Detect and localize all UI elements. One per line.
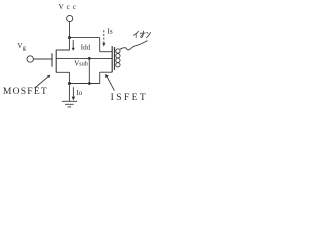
junction Vsub bottom	[88, 82, 91, 85]
transistor ISFET channel bar	[111, 46, 113, 72]
ion circle 3	[116, 58, 120, 62]
junction Vsub top	[88, 57, 91, 60]
svg-text:Vg: Vg	[17, 42, 26, 52]
transistor MOSFET channel bar	[55, 50, 57, 73]
svg-text:Is: Is	[107, 26, 112, 35]
wire ISFET source down	[99, 72, 101, 83]
wire Vsub drop	[88, 58, 90, 83]
wire to ground	[68, 84, 70, 102]
wire top rail	[70, 37, 100, 39]
wire bottom rail	[69, 83, 99, 85]
label ion katakana O	[140, 32, 146, 34]
wire MOSFET source lead	[56, 72, 69, 83]
transistor ISFET membrane bar	[114, 47, 116, 70]
wire ISFET drain lead	[100, 51, 113, 53]
svg-text:MOSFET: MOSFET	[3, 86, 48, 97]
svg-text:ISFET: ISFET	[111, 92, 149, 103]
label ion katakana I	[133, 31, 151, 38]
label ion katakana N	[147, 32, 149, 33]
wire substrate line	[56, 58, 112, 60]
junction top node	[68, 36, 71, 39]
ion circle 4	[116, 63, 120, 67]
wire right branch down	[99, 38, 101, 52]
current arrow Io	[72, 87, 74, 96]
svg-text:Idd: Idd	[81, 44, 91, 52]
ground	[62, 100, 77, 102]
ion circle 1	[116, 49, 120, 53]
svg-text:Vcc: Vcc	[59, 2, 79, 11]
svg-text:Io: Io	[76, 89, 82, 97]
svg-text:Vsub: Vsub	[74, 59, 88, 67]
ion circle 2	[116, 54, 120, 58]
wire ISFET source lead	[100, 71, 113, 73]
transistor MOSFET gate bar	[51, 53, 53, 66]
terminal Vg	[27, 56, 33, 62]
junction bottom node	[68, 82, 71, 85]
terminal Vcc	[67, 15, 73, 21]
wire MOSFET drain lead	[56, 38, 69, 50]
wire Vg gate lead	[33, 58, 52, 60]
current arrow Idd	[72, 40, 74, 48]
wire Vcc to rail	[69, 22, 71, 38]
current arrow Is	[103, 30, 105, 42]
pointer arrow ISFET	[107, 77, 114, 91]
pointer curve from ion label	[120, 41, 148, 50]
pointer arrow MOSFET	[35, 76, 49, 88]
